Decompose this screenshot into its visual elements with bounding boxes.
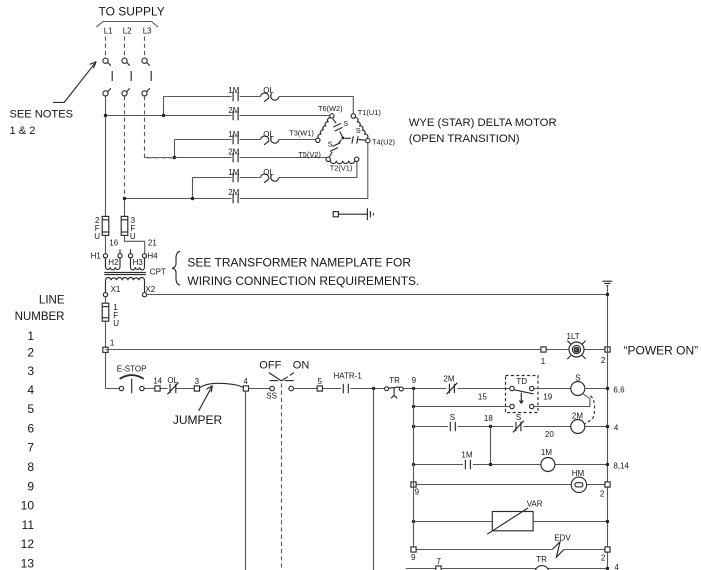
contact S right (to U2) — [345, 136, 366, 143]
svg-text:9: 9 — [412, 376, 417, 385]
svg-text:T1(U1): T1(U1) — [358, 108, 381, 117]
fuse 2FU — [102, 216, 109, 235]
svg-text:S: S — [516, 413, 521, 422]
svg-text:1LT: 1LT — [567, 332, 580, 341]
wire row A (to T1) — [164, 97, 354, 114]
label WYE (STAR) DELTA MOTOR — [409, 117, 557, 145]
wire TD to S coil — [534, 388, 571, 390]
svg-text:JUMPER: JUMPER — [173, 413, 223, 427]
terminal square 9 (line 9) — [411, 482, 416, 487]
svg-text:3: 3 — [195, 377, 200, 386]
wire TR to rail — [403, 388, 446, 390]
svg-text:2M: 2M — [443, 374, 454, 383]
wire L1 lead (dashed) — [105, 37, 107, 58]
svg-text:T3(W1): T3(W1) — [289, 128, 314, 137]
contact HATR-1 — [343, 384, 348, 393]
svg-text:4: 4 — [27, 383, 34, 397]
svg-text:1 & 2: 1 & 2 — [10, 125, 36, 137]
svg-text:G: G — [574, 347, 579, 354]
pilot light 1LT — [567, 341, 585, 359]
wire rung 5 — [414, 394, 590, 407]
svg-text:10: 10 — [21, 499, 35, 513]
terminal square 9 (line 12) — [411, 547, 416, 552]
dropper SS (dashed) — [281, 383, 283, 570]
junction rail (line 6) — [412, 425, 415, 428]
contact S NO (line 6) — [450, 422, 455, 431]
svg-text:U: U — [94, 232, 100, 241]
row numbers 1-13 — [21, 329, 35, 570]
svg-text:HM: HM — [572, 469, 585, 478]
note SEE TRANSFORMER NAMEPLATE — [187, 255, 419, 288]
junction rail line 8 right — [606, 463, 609, 466]
motor terminal T5(V2) — [326, 157, 330, 161]
ground symbol (motor frame) — [333, 208, 373, 220]
pushbutton E-STOP — [119, 375, 144, 393]
junction dropper (line 4) — [372, 387, 375, 390]
svg-text:SEE NOTES: SEE NOTES — [10, 108, 74, 120]
varistor VAR — [487, 508, 533, 534]
dropper HATR junction — [373, 389, 375, 570]
svg-text:S: S — [450, 413, 455, 422]
wire L2 lead (dashed) — [124, 37, 126, 58]
label 2FU — [94, 216, 100, 241]
junction rail line 6 right — [606, 425, 609, 428]
svg-text:1: 1 — [27, 329, 34, 343]
coil TR (bottom) — [535, 566, 549, 570]
wire riser rows E-F — [192, 178, 194, 199]
terminal square 1 (lamp left) — [541, 347, 546, 352]
overload OL row A — [261, 93, 279, 102]
svg-text:2: 2 — [27, 346, 34, 360]
svg-text:9: 9 — [27, 479, 34, 493]
wire rung 2 — [106, 349, 605, 351]
svg-text:S: S — [575, 373, 580, 382]
contact 2M NC (line 4) — [449, 384, 454, 393]
svg-text:VAR: VAR — [527, 499, 543, 508]
svg-text:2M: 2M — [228, 106, 239, 115]
svg-text:“POWER ON”: “POWER ON” — [624, 343, 699, 357]
junction riser (line 8) — [489, 463, 492, 466]
wire riser rows C-D — [174, 140, 176, 158]
coil S — [571, 382, 585, 396]
junction rail line 11 right — [606, 520, 609, 523]
transformer core — [104, 272, 146, 274]
svg-text:H2: H2 — [108, 258, 119, 267]
wire riser 18 — [490, 427, 492, 465]
svg-text:H4: H4 — [147, 252, 158, 261]
left rail — [105, 321, 107, 389]
wire X2 to right rail — [147, 294, 608, 296]
svg-text:13: 13 — [21, 557, 35, 570]
contact S lower (to V2) — [329, 140, 341, 157]
svg-text:OFF: OFF — [259, 359, 281, 371]
svg-text:7: 7 — [436, 557, 441, 566]
disconnect switch L2 bottom contact — [122, 88, 130, 96]
timer TD box — [506, 376, 539, 413]
note arrow — [53, 62, 96, 103]
svg-text:1M: 1M — [228, 168, 239, 177]
right rail — [607, 286, 609, 570]
junction riser row B — [162, 114, 165, 117]
wire X1 down — [105, 297, 107, 303]
svg-text:L3: L3 — [143, 27, 152, 36]
fuse 3FU — [121, 216, 128, 235]
junction rail (line 4) — [412, 387, 415, 390]
junction riser row D — [173, 156, 176, 159]
svg-text:2M: 2M — [572, 411, 583, 420]
disconnect switch L3 bottom contact — [142, 88, 150, 96]
svg-text:14: 14 — [153, 377, 162, 386]
junction riser row F — [191, 197, 194, 200]
timed contact TR (line 4) — [385, 387, 404, 399]
wire L3 lead (dashed) — [144, 37, 146, 58]
svg-text:OL: OL — [263, 168, 274, 177]
svg-text:H1: H1 — [91, 252, 102, 261]
wire SS to 5 — [294, 388, 318, 390]
terminal square 7 — [436, 566, 441, 570]
svg-text:TR: TR — [536, 555, 547, 564]
wire row B (to T6) — [106, 115, 330, 117]
contact 2M row D — [233, 153, 238, 163]
svg-text:5: 5 — [27, 402, 34, 416]
wire rung 12 — [414, 549, 608, 551]
svg-text:2M: 2M — [228, 148, 239, 157]
wire row C (to T3) — [175, 139, 316, 141]
svg-text:9: 9 — [415, 487, 420, 496]
svg-text:15: 15 — [478, 392, 487, 401]
svg-text:S: S — [356, 126, 361, 135]
motor terminal T2(V1) — [355, 157, 359, 161]
wire bottom rung — [406, 568, 608, 570]
svg-text:HATR-1: HATR-1 — [334, 372, 363, 381]
svg-text:T6(W2): T6(W2) — [318, 104, 343, 113]
terminal square 2 (line 9) — [605, 482, 610, 487]
terminal square 14 — [155, 386, 160, 391]
terminal square 4 — [243, 386, 248, 391]
wire L2 down (dashed) — [124, 96, 126, 198]
jumper arrow — [199, 386, 213, 411]
contact 2M row B — [233, 111, 238, 121]
wire L3 feed row D (dash-dot) — [145, 157, 175, 159]
label SEE NOTES 1 &amp; 2 — [10, 108, 74, 137]
supply bracket — [97, 22, 159, 28]
terminal square 2 (line 12) — [605, 547, 610, 552]
svg-text:9: 9 — [411, 553, 416, 562]
svg-text:U: U — [130, 232, 136, 241]
svg-text:X1: X1 — [111, 285, 121, 294]
svg-text:5: 5 — [318, 377, 323, 386]
svg-text:1M: 1M — [228, 130, 239, 139]
disconnect switch L2 top contact — [122, 58, 130, 66]
motor winding V2-V1 — [330, 161, 355, 164]
wire S coil to rail — [585, 388, 608, 390]
contact 1M row C — [233, 135, 238, 145]
wire rung 4 left — [106, 388, 195, 390]
svg-text:S: S — [343, 119, 348, 128]
disconnect switch L3 blade — [150, 71, 152, 81]
svg-text:SEE TRANSFORMER NAMEPLATE FOR: SEE TRANSFORMER NAMEPLATE FOR — [187, 255, 411, 269]
motor terminal T4(U2) — [366, 138, 370, 142]
svg-text:8,14: 8,14 — [613, 461, 629, 470]
junction rail (line 11) — [412, 520, 415, 523]
svg-text:4: 4 — [243, 377, 248, 386]
svg-text:L2: L2 — [123, 27, 132, 36]
timer TD contacts — [510, 386, 534, 408]
overload OL row C — [261, 136, 279, 145]
contact S upper (to W2) — [333, 119, 343, 137]
junction L2 row F — [123, 197, 126, 200]
svg-text:S: S — [328, 139, 333, 148]
svg-text:11: 11 — [22, 518, 35, 532]
svg-text:2M: 2M — [228, 188, 239, 197]
contact 2M row F — [233, 194, 238, 204]
contact 1M row A — [233, 92, 238, 102]
wire 5 to HATR — [322, 388, 341, 390]
contact S NC (line 6) — [516, 422, 521, 431]
surge suppressor EDV — [552, 542, 564, 557]
wire 3FU to H4 — [125, 235, 145, 253]
contact 1M NO (line 8) — [465, 460, 470, 469]
wire row F (to T4) — [125, 143, 368, 199]
hour meter HM — [571, 477, 586, 492]
svg-text:CPT: CPT — [150, 268, 166, 277]
svg-text:U: U — [113, 319, 119, 328]
motor winding W2-W1 — [318, 118, 331, 139]
wire rung 9 — [414, 484, 608, 486]
svg-text:7: 7 — [27, 441, 34, 455]
svg-text:2: 2 — [600, 489, 605, 498]
svg-text:OL: OL — [263, 130, 274, 139]
svg-text:TO SUPPLY: TO SUPPLY — [99, 4, 165, 18]
svg-text:1: 1 — [541, 357, 546, 366]
svg-text:T4(U2): T4(U2) — [372, 137, 395, 146]
ground (right rail top) — [602, 281, 612, 285]
wire L3 down (dashed) — [145, 96, 175, 158]
svg-text:1M: 1M — [461, 450, 472, 459]
selector switch SS — [269, 373, 294, 391]
svg-text:ON: ON — [293, 359, 310, 371]
inner left rail — [413, 389, 415, 547]
motor terminal T6(W2) — [330, 114, 334, 118]
star point node — [342, 137, 345, 140]
svg-text:4: 4 — [614, 563, 619, 570]
dropper from square 4 — [245, 391, 247, 570]
wire riser rows A-B — [163, 97, 165, 116]
mechanical interlock S-2M (dashed) — [585, 396, 595, 424]
wire 2M to TD — [457, 388, 509, 390]
wire 2FU to H1 — [105, 235, 107, 253]
svg-text:EDV: EDV — [554, 534, 571, 543]
svg-text:X2: X2 — [145, 285, 155, 294]
svg-text:8: 8 — [27, 460, 34, 474]
label LINE NUMBER — [15, 294, 65, 323]
svg-text:6,6: 6,6 — [613, 385, 625, 394]
terminal square 5 — [317, 386, 322, 391]
wire L1 down — [105, 96, 107, 216]
svg-text:6: 6 — [27, 421, 34, 435]
label 1FU — [113, 303, 119, 328]
svg-text:WIRING CONNECTION REQUIREMENTS: WIRING CONNECTION REQUIREMENTS. — [187, 274, 419, 288]
wire 4 to SS — [249, 388, 270, 390]
svg-text:OL: OL — [263, 86, 274, 95]
overload OL row E — [261, 174, 279, 183]
coil 1M — [541, 458, 555, 472]
svg-text:SS: SS — [266, 392, 277, 401]
junction rail (line 5) — [412, 405, 415, 408]
svg-text:18: 18 — [484, 414, 493, 423]
disconnect switch L3 top contact — [142, 58, 150, 66]
junction L1 row B — [104, 114, 107, 117]
terminal square 1 (left rail) — [103, 347, 108, 352]
svg-text:1M: 1M — [228, 86, 239, 95]
junction rail line 4 right — [606, 387, 609, 390]
junction rail (line 8) — [412, 463, 415, 466]
transformer CPT secondary — [103, 277, 146, 296]
svg-text:L1: L1 — [104, 27, 113, 36]
svg-text:NUMBER: NUMBER — [15, 311, 65, 323]
svg-text:19: 19 — [543, 392, 552, 401]
svg-text:20: 20 — [545, 430, 554, 439]
svg-text:H3: H3 — [133, 258, 144, 267]
jumper wire — [200, 383, 244, 388]
junction rail bottom — [606, 567, 609, 570]
wire row D (to T5) — [175, 157, 327, 159]
junction 18 — [489, 425, 492, 428]
disconnect switch L1 bottom contact — [103, 88, 111, 96]
brace — [172, 252, 180, 285]
terminal square 2 (line 2) — [605, 347, 610, 352]
svg-text:1M: 1M — [541, 448, 552, 457]
svg-text:21: 21 — [148, 239, 157, 248]
label 3FU — [130, 216, 136, 241]
svg-text:1: 1 — [110, 338, 115, 347]
svg-text:T5(V2): T5(V2) — [298, 150, 321, 159]
disconnect switch L1 blade — [111, 71, 113, 81]
svg-text:T2(V1): T2(V1) — [330, 163, 353, 172]
wire rung 8 — [414, 464, 608, 466]
disconnect switch L2 blade — [130, 71, 132, 81]
overload contact OL (NC) — [170, 384, 176, 393]
svg-text:12: 12 — [21, 537, 35, 551]
svg-text:OL: OL — [167, 376, 178, 385]
svg-text:2: 2 — [601, 356, 606, 365]
svg-text:4: 4 — [614, 423, 619, 432]
wire L2 to fuse 3FU — [124, 198, 126, 216]
disconnect switch L1 top contact — [103, 58, 111, 66]
svg-text:TR: TR — [389, 376, 400, 385]
svg-text:E-STOP: E-STOP — [117, 365, 147, 374]
svg-text:(OPEN TRANSITION): (OPEN TRANSITION) — [409, 133, 520, 145]
coil 2M — [571, 420, 585, 434]
motor terminal T3(W1) — [316, 138, 320, 142]
junction X2-rail — [606, 293, 609, 296]
svg-text:2: 2 — [601, 553, 606, 562]
terminal square 3 — [194, 386, 199, 391]
transformer CPT primary — [103, 249, 146, 269]
wire HATR to TR — [350, 388, 384, 390]
svg-text:WYE (STAR) DELTA MOTOR: WYE (STAR) DELTA MOTOR — [409, 117, 557, 129]
svg-text:LINE: LINE — [39, 294, 65, 306]
svg-text:TD: TD — [516, 377, 527, 386]
fuse 1FU — [102, 303, 109, 321]
svg-text:16: 16 — [109, 239, 118, 248]
svg-text:3: 3 — [27, 364, 34, 378]
motor winding U1-U2 — [354, 118, 368, 139]
contact 1M row E — [233, 173, 238, 183]
wire rung 6 — [414, 426, 608, 428]
wire rung 11 — [414, 521, 608, 523]
motor terminal T1(U1) — [351, 114, 355, 118]
wire row E (to T2) — [193, 162, 357, 178]
